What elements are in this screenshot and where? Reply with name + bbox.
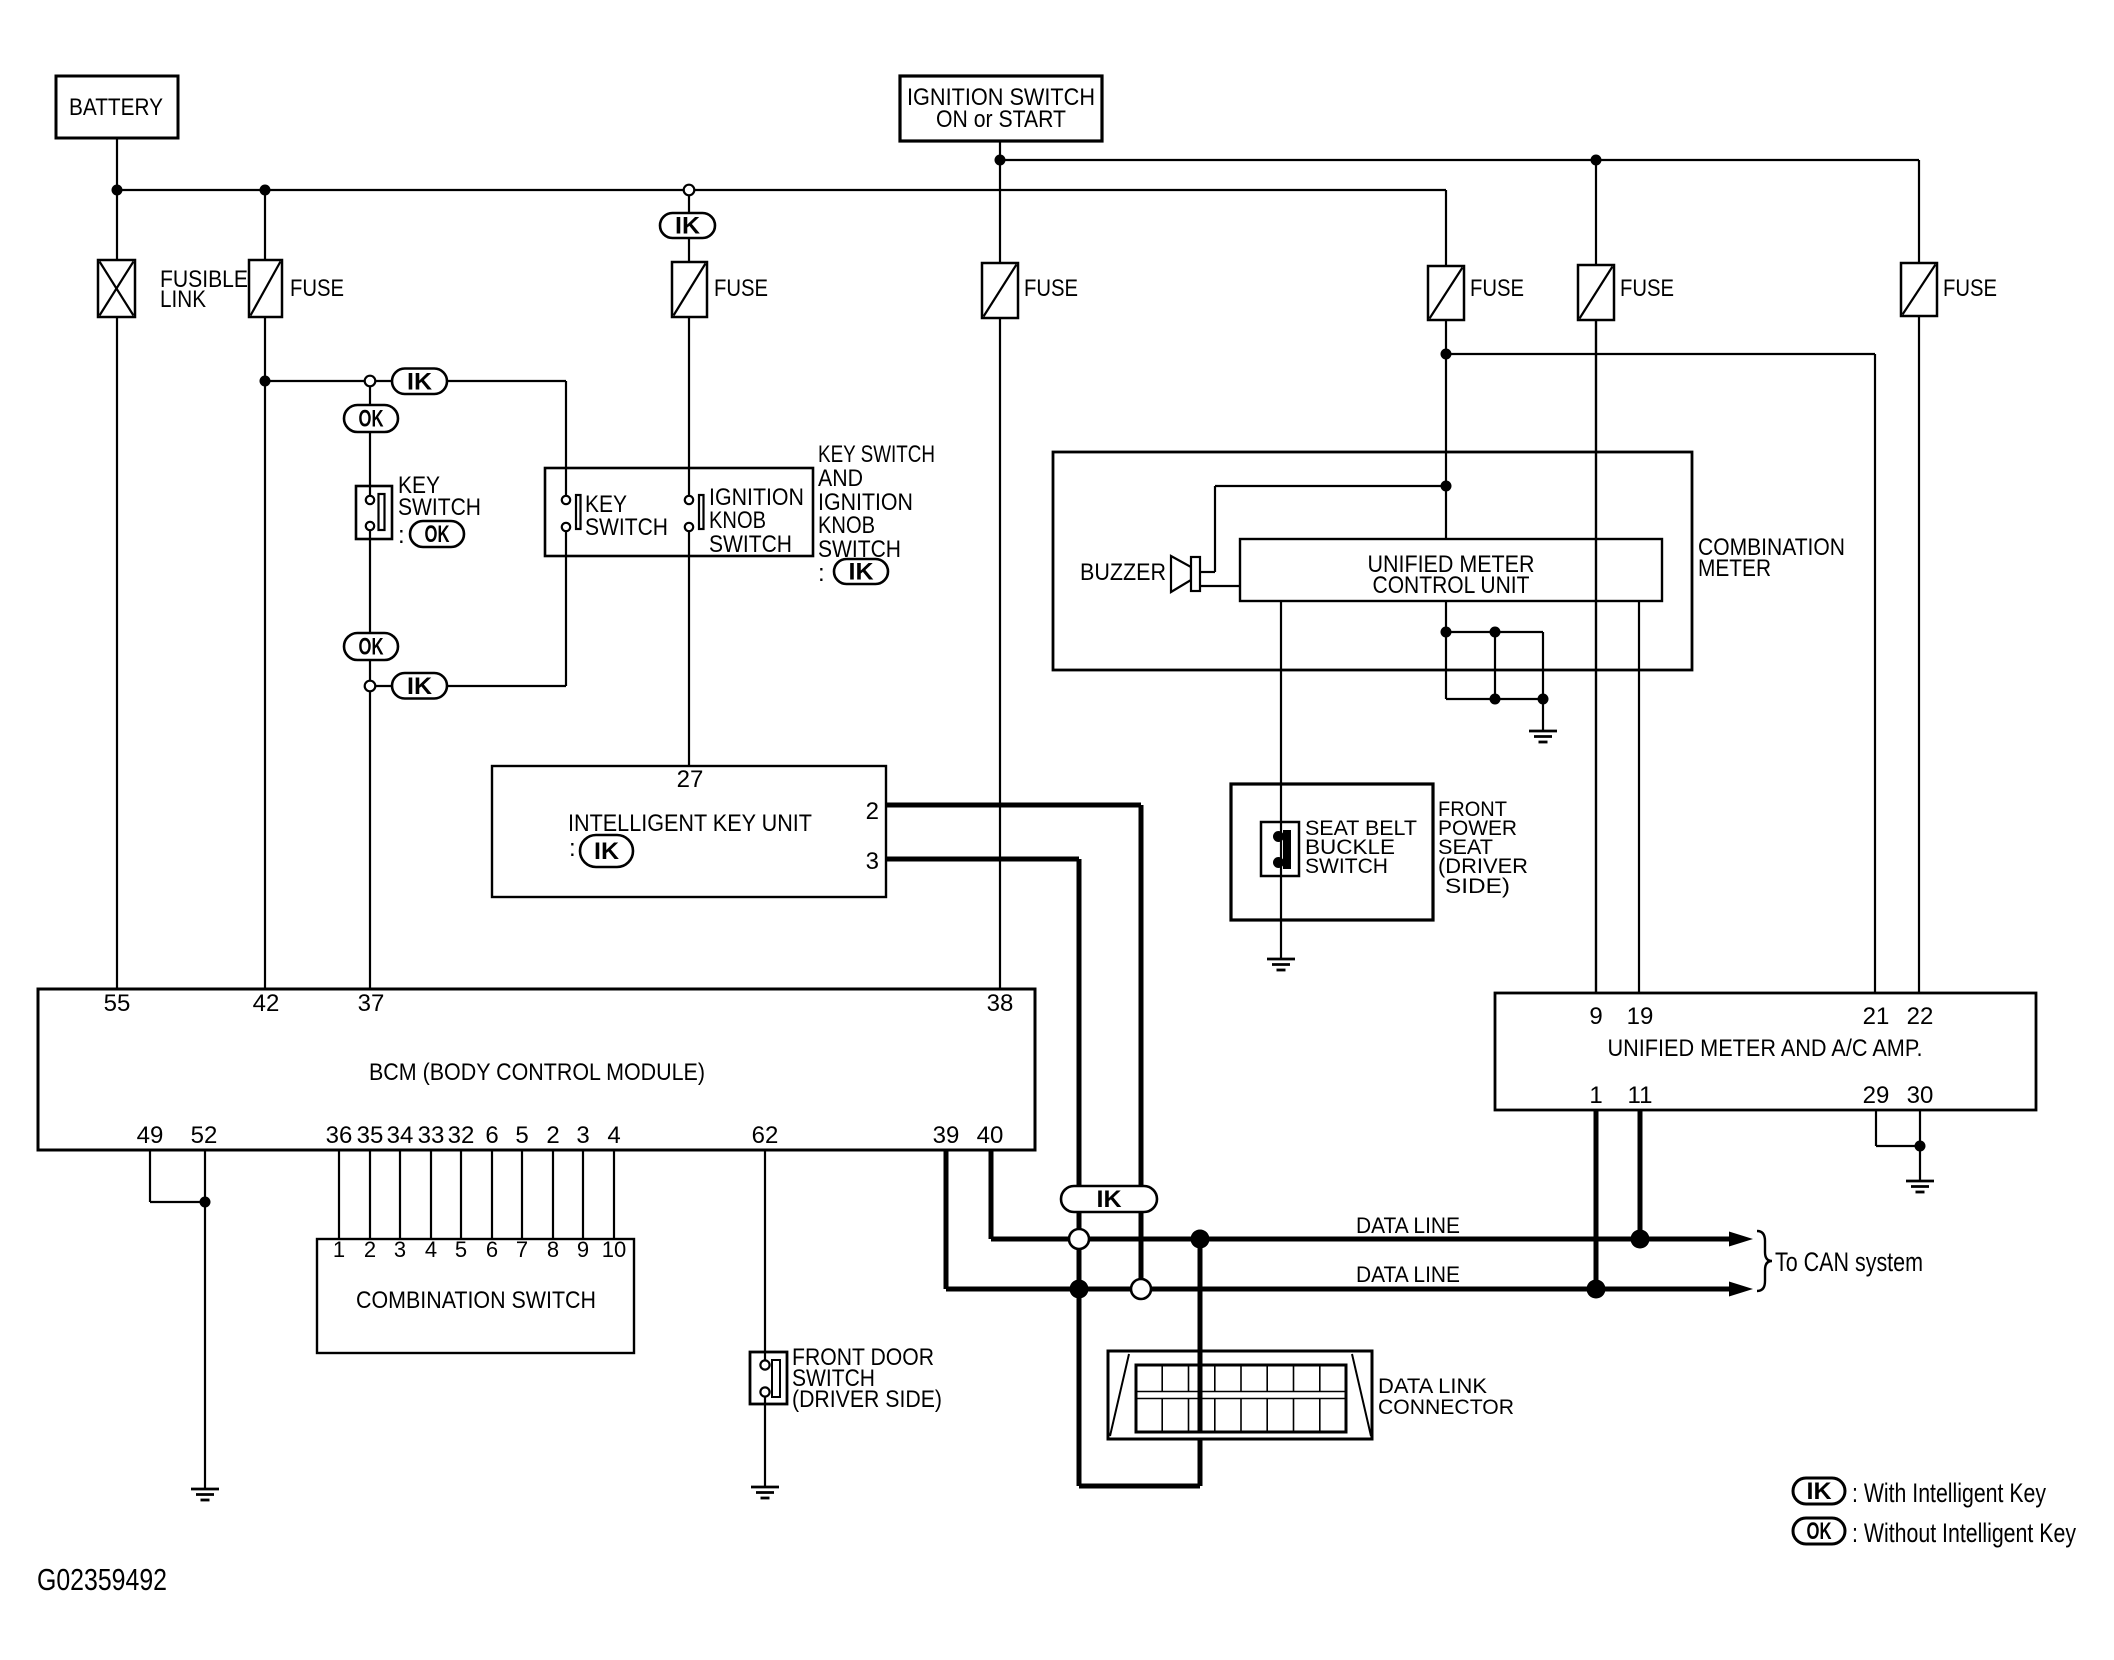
wire buzzer up	[1214, 486, 1216, 572]
svg-text:4: 4	[425, 1237, 437, 1262]
svg-text:9: 9	[1589, 1003, 1602, 1030]
svg-text:27: 27	[677, 766, 704, 793]
svg-text:SWITCH: SWITCH	[585, 514, 668, 541]
front door switch upper contact	[760, 1360, 769, 1369]
fuse F4	[1428, 266, 1464, 320]
wire fuse F6 to A/C amp pin 22	[1918, 316, 1920, 993]
svg-text:6: 6	[485, 1122, 498, 1149]
svg-text:3: 3	[394, 1237, 406, 1262]
wire down to key switch IK upper contact	[565, 381, 567, 495]
IK oval fuse F2 branch	[660, 213, 715, 238]
svg-text:(DRIVER SIDE): (DRIVER SIDE)	[792, 1386, 942, 1413]
svg-text:1: 1	[1589, 1082, 1602, 1109]
svg-text:5: 5	[455, 1237, 467, 1262]
wire pin 49 to pin 52 node	[150, 1201, 205, 1203]
wire ground ladder right vertical	[1542, 632, 1544, 731]
wire key switch to BCM pin 37	[369, 691, 371, 989]
svg-text:SWITCH: SWITCH	[818, 536, 901, 563]
IK oval key switch and ignition knob switch label	[834, 559, 888, 584]
svg-text:3: 3	[576, 1122, 589, 1149]
svg-text:CONNECTOR: CONNECTOR	[1378, 1396, 1514, 1419]
svg-text:40: 40	[977, 1122, 1004, 1149]
svg-text:8: 8	[547, 1237, 559, 1262]
wire ground ladder bottom	[1446, 698, 1543, 700]
data link connector outer box	[1108, 1351, 1372, 1439]
wire connector to lower IK oval	[375, 685, 392, 687]
svg-text:: Without Intelligent Key: : Without Intelligent Key	[1852, 1518, 2076, 1548]
wire intelligent key unit pin 3 CAN-L	[886, 857, 1079, 862]
arrowhead lower data line	[1729, 1282, 1753, 1297]
bus wire battery feed horizontal	[117, 189, 1446, 191]
wire OK oval to key switch OK upper contact	[369, 432, 371, 495]
junction pin 21 branch	[1441, 349, 1452, 360]
wire buzzer to power node	[1215, 485, 1446, 487]
svg-text:KNOB: KNOB	[709, 507, 766, 534]
wire ignition switch to fuse F3	[999, 141, 1001, 265]
junction ground ladder d	[1538, 694, 1549, 705]
connector circle pin2 line on lower data line	[1131, 1279, 1151, 1299]
svg-text:KNOB: KNOB	[818, 512, 875, 539]
ignition knob switch lower contact	[685, 523, 693, 531]
IK oval key switch branch upper	[392, 369, 447, 395]
svg-text:IK: IK	[407, 673, 433, 700]
junction buzzer feed	[1441, 481, 1452, 492]
wire intelligent key unit pin 2 CAN-H	[886, 803, 1141, 808]
wire fuse F4 down to unified meter control unit	[1445, 320, 1447, 539]
OK oval key switch branch lower	[344, 633, 398, 660]
svg-text:5: 5	[515, 1122, 528, 1149]
svg-text:33: 33	[418, 1122, 445, 1149]
front door switch lower contact	[760, 1387, 769, 1396]
key switch IK blade bar	[576, 495, 581, 529]
OK oval key switch branch upper	[344, 405, 398, 432]
ground combination meter	[1529, 731, 1557, 742]
unified meter and A/C amp box	[1495, 993, 2036, 1110]
junction ground ladder c	[1490, 694, 1501, 705]
junction fuse F5 feed	[1591, 155, 1602, 166]
IK oval data line branch	[1061, 1186, 1157, 1212]
svg-text:SIDE): SIDE)	[1445, 875, 1510, 898]
wire loop to data link connector bottom	[1079, 1484, 1200, 1489]
svg-text:ON or START: ON or START	[936, 106, 1066, 133]
svg-text:IK: IK	[1807, 1478, 1833, 1505]
key switch OK upper contact	[366, 496, 374, 504]
svg-text:COMBINATION SWITCH: COMBINATION SWITCH	[356, 1287, 596, 1314]
svg-text:INTELLIGENT KEY UNIT: INTELLIGENT KEY UNIT	[568, 810, 812, 837]
svg-text:7: 7	[516, 1237, 528, 1262]
wire up into data link connector bottom	[1198, 1439, 1203, 1486]
fuse F2	[672, 262, 707, 317]
fuse F6	[1901, 263, 1937, 316]
data link connector pin block	[1136, 1365, 1346, 1432]
junction battery bus	[112, 185, 123, 196]
IK oval legend	[1793, 1478, 1845, 1504]
ground seat belt buckle switch	[1267, 959, 1295, 970]
svg-text:DATA LINK: DATA LINK	[1378, 1375, 1487, 1398]
svg-text:9: 9	[577, 1237, 589, 1262]
wire A/C amp pin 30 to ground	[1919, 1110, 1921, 1181]
BCM body control module box	[38, 989, 1035, 1150]
intelligent key unit box U-IKU	[492, 766, 886, 897]
svg-text:AND: AND	[818, 465, 863, 492]
seat belt buckle inner box	[1261, 822, 1299, 876]
svg-text:10: 10	[602, 1237, 626, 1262]
svg-text:BATTERY: BATTERY	[69, 94, 163, 121]
wire buzzer lower lead to unified meter control unit	[1200, 585, 1240, 587]
junction ignition bus	[995, 155, 1006, 166]
svg-text:SWITCH: SWITCH	[398, 494, 481, 521]
fuse F3	[982, 263, 1018, 318]
ground A/C amp pin 30	[1906, 1181, 1934, 1192]
wire BCM pin 52 to ground	[204, 1150, 206, 1489]
data link connector trapezoid sides	[1110, 1354, 1129, 1436]
svg-text:35: 35	[357, 1122, 384, 1149]
wires BCM pins 36,35,34,33,32,6,5,2,3,4 to combination switch pins 1-10	[338, 1150, 340, 1239]
connector circle key switch branch upper	[365, 376, 376, 387]
svg-text:IK: IK	[407, 368, 433, 395]
svg-text:19: 19	[1627, 1003, 1654, 1030]
svg-text:21: 21	[1863, 1003, 1890, 1030]
ignition knob switch blade bar	[699, 495, 704, 529]
wire A/C amp pin 29 down	[1875, 1110, 1877, 1146]
svg-text::: :	[398, 522, 405, 549]
wire ignition knob switch lower contact to intelligent key unit pin 27	[688, 532, 690, 766]
connector circle pin3 line on upper data line	[1069, 1229, 1089, 1249]
svg-text:SWITCH: SWITCH	[1305, 855, 1388, 878]
svg-text:2: 2	[866, 798, 879, 825]
arrowhead upper data line	[1729, 1232, 1753, 1247]
junction pin 49/52	[200, 1197, 211, 1208]
wire A/C amp pin 1 down	[1594, 1110, 1599, 1289]
svg-text:39: 39	[933, 1122, 960, 1149]
svg-text:22: 22	[1907, 1003, 1934, 1030]
wire upper data line tap into data link connector	[1198, 1239, 1203, 1432]
svg-text:OK: OK	[1807, 1518, 1832, 1545]
wire key switch OK lower contact to OK oval	[369, 531, 371, 633]
wire ground ladder mid vertical	[1494, 632, 1496, 699]
junction pin 11 on upper data line	[1631, 1230, 1650, 1249]
svg-text:KEY SWITCH: KEY SWITCH	[818, 441, 935, 468]
front door switch blade bar	[772, 1360, 780, 1397]
junction ground ladder a	[1441, 627, 1452, 638]
svg-text::: :	[818, 560, 825, 587]
svg-text:DATA LINE: DATA LINE	[1356, 1262, 1460, 1287]
svg-text:4: 4	[607, 1122, 620, 1149]
svg-text:42: 42	[253, 990, 280, 1017]
svg-text:62: 62	[752, 1122, 779, 1149]
svg-text:3: 3	[866, 848, 879, 875]
svg-text:1: 1	[333, 1237, 345, 1262]
wire unified meter control unit to A/C amp pin 19	[1638, 601, 1640, 993]
junction lower data line tap	[1070, 1280, 1089, 1299]
wire fuse F2 to ignition knob switch upper contact	[688, 317, 690, 495]
key switch OK lower contact	[366, 522, 374, 530]
svg-text:METER: METER	[1698, 555, 1771, 582]
svg-text:IK: IK	[594, 838, 620, 865]
svg-text:34: 34	[387, 1122, 414, 1149]
wire branch to A/C amp pin 21 horizontal	[1446, 353, 1875, 355]
svg-text:6: 6	[486, 1237, 498, 1262]
fuse F5	[1578, 265, 1614, 320]
svg-text:UNIFIED METER AND A/C AMP.: UNIFIED METER AND A/C AMP.	[1608, 1035, 1923, 1062]
wire pin 3 down to upper data line connector	[1077, 859, 1082, 1229]
wire pin 2 down to lower data line connector	[1139, 805, 1144, 1279]
svg-text:29: 29	[1863, 1082, 1890, 1109]
svg-text:FUSE: FUSE	[1620, 275, 1674, 302]
buzzer speaker icon	[1171, 556, 1191, 592]
wire bus connector to fuse F2	[688, 190, 690, 262]
svg-text:38: 38	[987, 990, 1014, 1017]
connector circle on bus at fuse F2 branch	[684, 185, 695, 196]
wire BCM pin 49 down	[149, 1150, 151, 1202]
svg-text:SWITCH: SWITCH	[709, 531, 792, 558]
IK oval key switch branch lower	[392, 673, 447, 699]
wire bus to fuse F1	[264, 190, 266, 260]
fuse F1	[249, 260, 282, 317]
ignition knob switch upper contact	[685, 496, 693, 504]
svg-text:BCM (BODY CONTROL MODULE): BCM (BODY CONTROL MODULE)	[369, 1059, 705, 1086]
wire bus to fuse F4	[1445, 190, 1447, 268]
svg-text:2: 2	[364, 1237, 376, 1262]
combination meter box	[1053, 452, 1692, 670]
wire branch to A/C amp pin 21 vertical	[1874, 354, 1876, 993]
junction pin 1 on lower data line	[1587, 1280, 1606, 1299]
wire lower data line tap down	[1077, 1249, 1082, 1486]
wire ground ladder top	[1446, 631, 1543, 633]
wire unified meter control unit through seat belt buckle switch to ground	[1280, 601, 1282, 959]
upper DATA LINE wire	[991, 1237, 1733, 1242]
key switch and ignition knob switch box	[545, 468, 813, 556]
svg-text:49: 49	[137, 1122, 164, 1149]
wire fuse F3 to BCM pin 38	[999, 318, 1001, 989]
unified meter control unit box	[1240, 539, 1662, 601]
fusible link symbol	[98, 260, 135, 317]
wire pin 29 to pin 30 node	[1876, 1145, 1920, 1147]
svg-text:FUSE: FUSE	[1470, 275, 1524, 302]
seat belt buckle glyph	[1283, 830, 1291, 869]
svg-text:OK: OK	[425, 521, 450, 548]
front door switch box	[750, 1352, 787, 1404]
svg-text:55: 55	[104, 990, 131, 1017]
svg-text:52: 52	[191, 1122, 218, 1149]
wire fusible link to BCM pin 55	[116, 317, 118, 989]
svg-text::: :	[569, 835, 576, 862]
svg-text:BUZZER: BUZZER	[1080, 559, 1166, 586]
lower DATA LINE wire	[946, 1287, 1733, 1292]
seat belt buckle switch box	[1231, 784, 1433, 920]
svg-text:OK: OK	[359, 634, 384, 661]
svg-text:2: 2	[546, 1122, 559, 1149]
svg-text:: With Intelligent Key: : With Intelligent Key	[1852, 1478, 2046, 1508]
junction fuse F1 feed	[260, 185, 271, 196]
svg-text:FUSE: FUSE	[290, 275, 344, 302]
wire connector down to OK oval	[369, 386, 371, 405]
OK oval legend	[1793, 1518, 1845, 1544]
IK oval intelligent key unit label	[580, 835, 633, 867]
junction upper data line to DLC	[1191, 1230, 1210, 1249]
wire front door switch to ground	[764, 1397, 766, 1487]
ground front door switch	[751, 1487, 779, 1498]
wire unified meter control unit ground pin	[1445, 601, 1447, 699]
battery box	[56, 76, 178, 138]
key switch OK symbol outer box	[356, 486, 392, 539]
junction key switch branch	[260, 376, 271, 387]
wire lower IK oval to key switch IK path	[447, 685, 566, 687]
connector circle key switch branch lower	[365, 681, 376, 692]
key switch IK upper contact	[562, 496, 570, 504]
svg-text:CONTROL UNIT: CONTROL UNIT	[1373, 572, 1530, 599]
svg-text:FUSE: FUSE	[1943, 275, 1997, 302]
junction ground ladder b	[1490, 627, 1501, 638]
svg-text:FUSE: FUSE	[714, 275, 768, 302]
wire connector to IK oval	[375, 380, 392, 382]
wire BCM pin 40 down	[989, 1150, 994, 1239]
wire BCM pin 39 down	[944, 1150, 949, 1289]
svg-text:FUSE: FUSE	[1024, 275, 1078, 302]
wire A/C amp pin 11 down	[1638, 1110, 1643, 1239]
bus wire ignition feed horizontal	[1000, 159, 1919, 161]
svg-text:36: 36	[326, 1122, 353, 1149]
wire key switch IK lower contact down	[565, 532, 567, 686]
wire bus to fuse F6	[1918, 160, 1920, 263]
key switch IK lower contact	[562, 523, 570, 531]
svg-text:IK: IK	[1097, 1186, 1123, 1213]
ignition switch box	[900, 76, 1102, 141]
svg-text:32: 32	[448, 1122, 475, 1149]
junction pin 29/30 ground	[1915, 1141, 1926, 1152]
wire fuse F5 to A/C amp pin 9	[1595, 320, 1597, 993]
svg-text:To CAN system: To CAN system	[1775, 1247, 1923, 1277]
svg-text:G02359492: G02359492	[37, 1562, 167, 1597]
wire BCM pin 62 to front door switch	[764, 1150, 766, 1360]
svg-text:DATA LINE: DATA LINE	[1356, 1213, 1460, 1238]
svg-text:30: 30	[1907, 1082, 1934, 1109]
svg-text:LINK: LINK	[160, 286, 206, 313]
combination switch box	[317, 1239, 634, 1353]
svg-text:11: 11	[1628, 1082, 1653, 1109]
svg-text:IK: IK	[675, 213, 701, 240]
key switch OK blade bar	[379, 494, 385, 530]
svg-text:37: 37	[358, 990, 385, 1017]
brace to CAN system	[1757, 1231, 1772, 1291]
wire bus to fuse F5	[1595, 160, 1597, 267]
OK oval key switch label	[410, 521, 464, 547]
wire fuse F1 to BCM pin 42	[264, 317, 266, 989]
wire buzzer upper lead	[1200, 571, 1215, 573]
svg-text:OK: OK	[359, 406, 384, 433]
wire battery to fusible link	[116, 138, 118, 260]
wire key switch branch from fuse F1 node	[265, 380, 365, 382]
wire IK oval to key switch (IK) top	[447, 380, 566, 382]
ground BCM pin 52	[191, 1489, 219, 1500]
data link connector cell grid	[1136, 1365, 1346, 1432]
wire OK oval to connector	[369, 660, 371, 681]
